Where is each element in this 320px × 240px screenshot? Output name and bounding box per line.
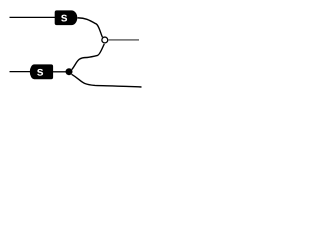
wire from S1 to node [77,18,102,37]
label s (top block) [61,15,67,22]
node (open circle) [102,37,108,43]
wire junction lower output [72,74,142,87]
block S1 (top, round right cap) [55,10,78,25]
block S2 (bottom, round left cap) [30,64,53,79]
wire bottom input [10,71,33,73]
wire junction to node (S curve) [72,44,105,70]
wire node output (gray) [108,39,139,41]
wire from S2 to junction [53,71,67,73]
junction dot [66,68,73,75]
label s (bottom block) [37,69,43,76]
wire top input [10,16,57,18]
